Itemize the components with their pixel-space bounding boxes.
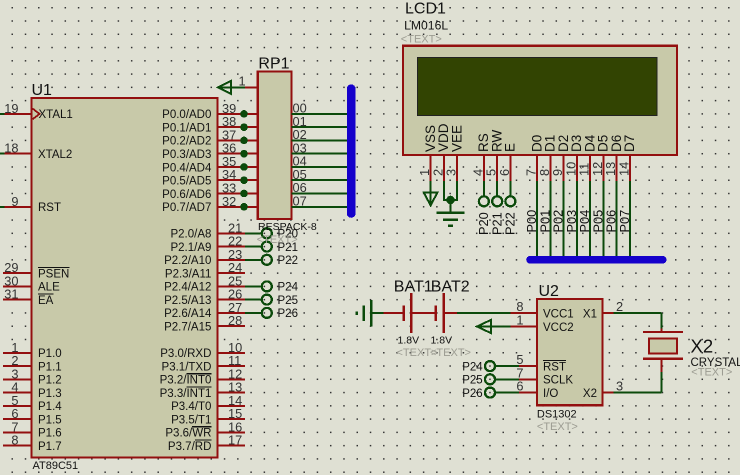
U2 pin 7 SCLK with terminal P25 [462, 365, 573, 386]
svg-text:3: 3 [616, 379, 623, 394]
svg-text:9: 9 [11, 194, 18, 209]
U1 pin 17 P3.7/RD stub [168, 433, 245, 453]
U2 pin 2 X1 wire to crystal X2 [583, 299, 661, 332]
svg-text:X2: X2 [691, 336, 714, 357]
svg-text:P3.2/INT0: P3.2/INT0 [160, 375, 212, 387]
BAT1 reference label [394, 279, 433, 296]
U1 pin 32 P0.7/AD7 wire to RP1 with junction [162, 194, 258, 214]
U1 pin 12 P3.2/INT0 stub [160, 366, 245, 386]
RP1 pin 00 wire to bus [291, 101, 347, 116]
U1 pin 21 P2.0/A8 stub [170, 220, 245, 240]
LCD1 VSS wire with arrow terminal [424, 181, 437, 205]
LCD1 pin 14 D7 stub [617, 135, 638, 181]
U2 reference label [539, 283, 560, 300]
svg-text:P3.7/RD: P3.7/RD [168, 441, 211, 453]
svg-text:P25: P25 [278, 295, 298, 307]
LCD1 grey text placeholder [401, 34, 442, 46]
U1 pin 29 PSEN with stub wire [3, 260, 69, 280]
LCD1 value label LM016L [404, 19, 448, 33]
U1 pin 24 P2.3/A11 stub [165, 260, 245, 280]
U1 pin 34 P0.5/AD5 wire to RP1 with junction [162, 167, 258, 187]
RP1 reference label [258, 55, 289, 72]
terminal P22 below LCD pin 6 [503, 181, 518, 235]
RP1 pin 01 wire to bus [291, 114, 347, 129]
X2 value label CRYSTAL [691, 357, 740, 369]
svg-text:BAT1: BAT1 [394, 279, 433, 296]
LCD1 pin 6 E stub [497, 143, 518, 181]
svg-text:P2.3/A11: P2.3/A11 [165, 268, 211, 280]
battery BAT1 plates [404, 293, 412, 333]
svg-text:XTAL2: XTAL2 [38, 149, 72, 161]
svg-text:XTAL1: XTAL1 [39, 109, 73, 121]
svg-text:U2: U2 [539, 283, 560, 300]
svg-text:RST: RST [543, 361, 566, 373]
LCD1 pin 4 RS stub [470, 133, 491, 181]
svg-text:P07: P07 [617, 210, 632, 233]
svg-text:BAT2: BAT2 [431, 279, 470, 296]
U1 pin 10 P3.0/RXD stub [160, 340, 245, 360]
LCD1 pin 8 D1 stub [537, 135, 558, 181]
RP1 grey text placeholder [257, 234, 298, 246]
svg-text:8: 8 [11, 433, 18, 448]
svg-text:RESPACK-8: RESPACK-8 [258, 221, 317, 233]
terminal P21 near U1 [245, 242, 298, 254]
terminal P22 near U1 [245, 255, 298, 267]
RP1 pin 06 wire to bus [291, 180, 347, 195]
svg-text:DS1302: DS1302 [537, 409, 577, 421]
svg-text:P0.6/AD6: P0.6/AD6 [162, 189, 211, 201]
U1 pin 27 P2.6/A14 stub [164, 300, 245, 320]
BAT2 value 1.8V [431, 335, 453, 347]
LCD1 pin 11 D4 stub [577, 134, 598, 181]
horizontal bus segment [526, 256, 666, 264]
X2 reference label [691, 336, 714, 357]
U1 pin 37 P0.2/AD2 wire to RP1 with junction [162, 127, 258, 147]
LCD1 pin 9 D2 stub [550, 135, 571, 181]
svg-text:P22: P22 [278, 255, 298, 267]
svg-text:U1: U1 [32, 82, 53, 99]
U1 pin 16 P3.6/WR stub [165, 419, 245, 439]
svg-text:P26: P26 [278, 308, 298, 320]
RP1 pin 1 wire with input arrow [218, 74, 258, 95]
RP1 pin 07 wire to bus [291, 193, 347, 208]
U1 pin 2 P1.1 with stub wire [3, 353, 62, 373]
svg-text:P1.5: P1.5 [38, 414, 62, 426]
U1 pin 22 P2.1/A9 stub [170, 234, 245, 254]
U2 pin 8 VCC1 [511, 299, 574, 320]
U1 pin 38 P0.1/AD1 wire to RP1 with junction [162, 114, 258, 134]
LCD1 pin 1 VSS stub [417, 125, 438, 181]
U1 pin 9 RST with wire [0, 194, 61, 214]
BAT2 grey text placeholder [430, 347, 471, 359]
battery cell (green) plates [364, 300, 384, 327]
terminal P20 below LCD pin 4 [476, 181, 491, 235]
svg-text:P1.3: P1.3 [38, 388, 62, 400]
LCD1 data wire D4 to bus, net P04 [577, 181, 592, 257]
U1 pin 28 P2.7/A15 stub [164, 313, 245, 333]
LCD1 data wire D5 to bus, net P05 [591, 181, 606, 257]
svg-text:P2.2/A10: P2.2/A10 [164, 255, 211, 267]
RP1 value label RESPACK-8 [258, 221, 317, 233]
U1 pin 13 P3.3/INT1 stub [160, 380, 245, 400]
U1 pin 6 P1.5 with stub wire [3, 406, 62, 426]
svg-text:P2.6/A14: P2.6/A14 [164, 308, 212, 320]
svg-text:P24: P24 [278, 282, 299, 294]
U1 pin 36 P0.3/AD3 wire to RP1 with junction [162, 141, 258, 161]
svg-text:<TEXT>: <TEXT> [430, 347, 471, 359]
U1 reference label [32, 82, 53, 99]
crystal X2 symbol [643, 332, 683, 359]
LCD1 pin 13 D6 stub [603, 135, 624, 181]
svg-text:<TEXT>: <TEXT> [257, 234, 298, 246]
BAT1 grey text placeholder [397, 347, 438, 359]
svg-text:P24: P24 [462, 361, 483, 373]
svg-text:18: 18 [4, 141, 18, 156]
svg-text:AT89C51: AT89C51 [33, 460, 79, 472]
svg-text:P3.1/TXD: P3.1/TXD [162, 361, 212, 373]
terminal P20 near U1 [245, 228, 298, 240]
svg-text:P1.1: P1.1 [38, 361, 62, 373]
battery BAT2 plates [436, 293, 444, 333]
dangling wire end [356, 312, 359, 315]
U2 pin 3 X2 wire to crystal X2 [583, 359, 661, 400]
svg-text:SCLK: SCLK [543, 375, 573, 387]
svg-text:VEE: VEE [449, 125, 464, 152]
U1 pin 26 P2.5/A13 stub [164, 287, 245, 307]
svg-text:3: 3 [444, 169, 459, 176]
wire BAT2 to U2 VCC1 [445, 312, 511, 314]
LCD1 body [403, 46, 677, 155]
svg-text:1.8V: 1.8V [398, 335, 420, 347]
U1 pin 25 P2.4/A12 stub [164, 273, 245, 293]
U1 pin 15 P3.5/T1 stub [171, 406, 245, 426]
U1 pin 19 XTAL1 with wire [0, 101, 73, 121]
LCD1 data wire D7 to bus, net P07 [617, 181, 632, 257]
resistor pack RP1 body [258, 72, 292, 220]
IC U2 DS1302 body [537, 299, 603, 405]
U2 pin 5 RST with terminal P24 [462, 352, 566, 373]
svg-text:X2: X2 [583, 388, 597, 400]
svg-text:P3.6/WR: P3.6/WR [165, 428, 211, 440]
U1 pin 14 P3.4/T0 stub [171, 393, 245, 413]
svg-text:EA: EA [38, 295, 54, 307]
svg-text:<TEXT>: <TEXT> [537, 421, 578, 433]
LCD1 pin 7 D0 stub [524, 135, 545, 181]
svg-text:14: 14 [617, 162, 632, 176]
X2 grey text placeholder [691, 367, 732, 379]
U1 pin 8 P1.7 with stub wire [3, 433, 62, 453]
RP1 pin 02 wire to bus [291, 127, 347, 142]
svg-text:1.8V: 1.8V [431, 335, 453, 347]
svg-text:P0.3/AD3: P0.3/AD3 [162, 149, 211, 161]
svg-text:P0.1/AD1: P0.1/AD1 [162, 123, 211, 135]
svg-text:X1: X1 [583, 309, 597, 321]
svg-text:P1.7: P1.7 [38, 441, 62, 453]
svg-text:P2.4/A12: P2.4/A12 [164, 282, 211, 294]
svg-text:1: 1 [516, 313, 523, 328]
vertical bus segment [347, 84, 356, 217]
LCD1 pin 2 VDD stub [430, 123, 451, 181]
svg-text:28: 28 [228, 313, 242, 328]
U1 value label AT89C51 [33, 460, 79, 472]
svg-text:P2.0/A8: P2.0/A8 [170, 229, 211, 241]
svg-text:E: E [503, 143, 518, 152]
svg-text:P26: P26 [462, 388, 482, 400]
U1 pin 3 P1.2 with stub wire [3, 366, 62, 386]
svg-text:VCC2: VCC2 [543, 322, 574, 334]
U1 pin 11 P3.1/TXD stub [162, 353, 245, 373]
svg-text:1: 1 [239, 74, 246, 89]
U1 pin 23 P2.2/A10 stub [164, 247, 245, 267]
terminal P25 near U1 [245, 295, 298, 307]
svg-text:P3.3/INT1: P3.3/INT1 [160, 388, 212, 400]
U2 grey text placeholder [537, 421, 578, 433]
U2 pin 1 VCC2 wire with input arrow [477, 313, 574, 334]
terminal P26 near U1 [245, 308, 298, 320]
svg-text:6: 6 [516, 379, 523, 394]
BAT1 value 1.8V [398, 335, 420, 347]
RP1 pin 04 wire to bus [291, 154, 347, 169]
LCD1 VDD/VEE wires to ground [443, 181, 458, 212]
svg-text:07: 07 [293, 193, 307, 208]
svg-text:19: 19 [4, 101, 18, 116]
LCD1 data wire D6 to bus, net P06 [604, 181, 619, 257]
svg-text:P3.0/RXD: P3.0/RXD [160, 348, 211, 360]
LCD1 reference label [405, 1, 446, 18]
svg-text:P1.6: P1.6 [38, 428, 62, 440]
svg-text:PSEN: PSEN [38, 268, 69, 280]
U1 pin 4 P1.3 with stub wire [3, 380, 62, 400]
svg-text:LCD1: LCD1 [405, 1, 446, 18]
U1 pin 33 P0.6/AD6 wire to RP1 with junction [162, 181, 258, 201]
svg-text:P25: P25 [462, 375, 482, 387]
svg-text:<TEXT>: <TEXT> [401, 34, 442, 46]
LCD1 pin 5 RW stub [484, 129, 505, 181]
U2 pin 6 I/O with terminal P26 [462, 379, 558, 400]
LCD1 data wire D3 to bus, net P03 [564, 181, 579, 257]
LCD1 data wire D2 to bus, net P02 [551, 181, 566, 257]
svg-text:RP1: RP1 [258, 55, 289, 72]
LCD1 pin 12 D5 stub [590, 135, 611, 181]
svg-text:2: 2 [616, 299, 623, 314]
U2 value label DS1302 [537, 409, 577, 421]
LCD1 data wire D0 to bus, net P00 [524, 181, 539, 257]
U1 pin 39 P0.0/AD0 wire to RP1 with junction [162, 101, 258, 121]
svg-text:P0.2/AD2: P0.2/AD2 [162, 136, 211, 148]
svg-text:17: 17 [228, 433, 242, 448]
LCD1 pin 3 VEE stub [444, 125, 465, 181]
svg-text:P1.2: P1.2 [38, 375, 62, 387]
svg-text:<TEXT>: <TEXT> [691, 367, 732, 379]
svg-text:P1.4: P1.4 [38, 401, 62, 413]
svg-text:P0.5/AD5: P0.5/AD5 [162, 176, 211, 188]
svg-text:VCC1: VCC1 [543, 309, 574, 321]
svg-text:P3.5/T1: P3.5/T1 [171, 414, 211, 426]
LCD1 data wire D1 to bus, net P01 [537, 181, 552, 257]
svg-text:LM016L: LM016L [404, 19, 448, 33]
svg-text:P2.7/A15: P2.7/A15 [164, 322, 211, 334]
U1 pin 5 P1.4 with stub wire [3, 393, 62, 413]
RP1 pin 05 wire to bus [291, 167, 347, 182]
ground symbol [436, 213, 464, 226]
svg-text:D7: D7 [622, 135, 637, 152]
IC U1 AT89C51 body [32, 98, 218, 458]
svg-text:6: 6 [497, 169, 512, 176]
svg-text:ALE: ALE [38, 282, 60, 294]
svg-text:P2.1/A9: P2.1/A9 [170, 242, 211, 254]
U1 pin 7 P1.6 with stub wire [3, 419, 62, 439]
svg-text:P0.4/AD4: P0.4/AD4 [162, 162, 212, 174]
wire BAT1 to BAT2 [412, 312, 434, 314]
U1 pin 30 ALE with stub wire [3, 273, 60, 293]
LCD1 pin 10 D3 stub [563, 135, 584, 181]
wire BAT cell to BAT1 [384, 312, 403, 314]
svg-text:32: 32 [222, 194, 236, 209]
BAT2 reference label [431, 279, 470, 296]
svg-text:P22: P22 [503, 212, 518, 235]
U1 pin 1 P1.0 with stub wire [3, 340, 62, 360]
svg-text:P2.5/A13: P2.5/A13 [164, 295, 211, 307]
terminal P24 near U1 [245, 281, 299, 293]
svg-text:P0.7/AD7: P0.7/AD7 [162, 202, 211, 214]
U1 pin 31 EA with stub wire [3, 287, 54, 307]
LCD1 screen [418, 58, 657, 116]
U1 pin 18 XTAL2 with wire [0, 141, 72, 161]
svg-text:31: 31 [4, 287, 18, 302]
RP1 pin 03 wire to bus [291, 140, 347, 155]
svg-text:RST: RST [38, 202, 61, 214]
terminal P21 below LCD pin 5 [489, 181, 504, 235]
U1 pin 35 P0.4/AD4 wire to RP1 with junction [162, 154, 258, 174]
svg-text:P3.4/T0: P3.4/T0 [171, 401, 211, 413]
svg-text:I/O: I/O [543, 388, 558, 400]
svg-text:P1.0: P1.0 [38, 348, 62, 360]
svg-text:P0.0/AD0: P0.0/AD0 [162, 109, 211, 121]
